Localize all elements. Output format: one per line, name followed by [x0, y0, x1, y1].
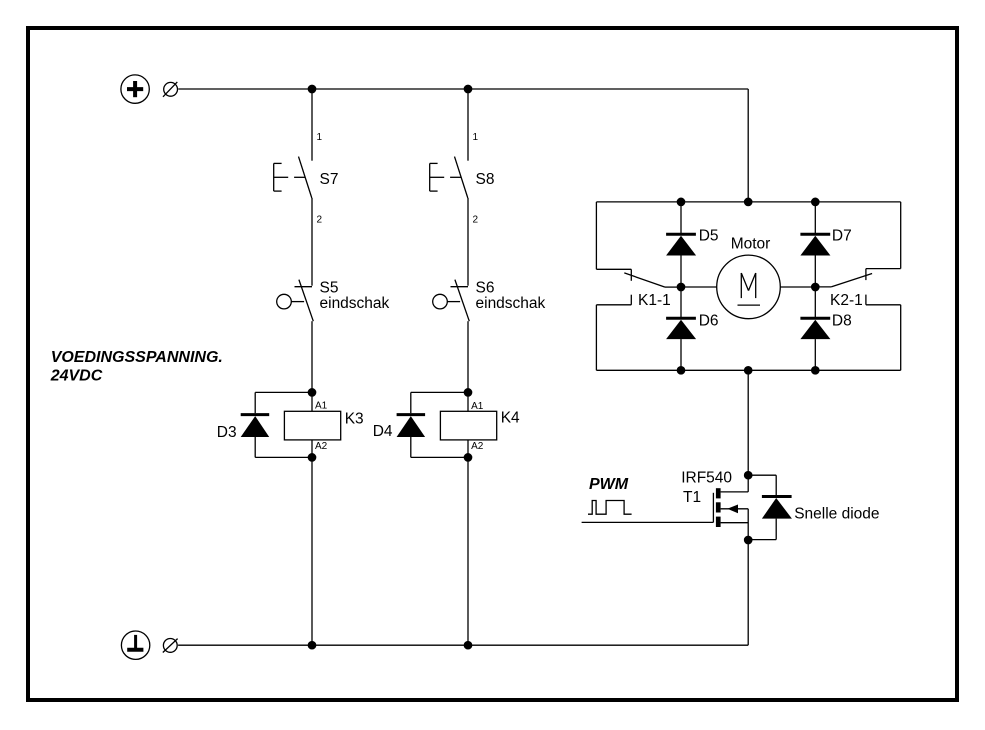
motor M1 [717, 255, 781, 319]
diode D7 [800, 202, 830, 287]
ground connector O [163, 639, 178, 653]
wire bridge top [596, 201, 900, 203]
wire motor right [780, 286, 815, 288]
wire bridge to drain [747, 370, 749, 492]
node top bus left [308, 85, 315, 92]
node bridge top left [677, 198, 684, 205]
wire S6 to K4 node [467, 321, 469, 392]
wire source to bottom bus [747, 540, 749, 645]
svg-text:2: 2 [473, 215, 479, 226]
svg-text:A1: A1 [471, 401, 484, 412]
svg-text:Motor: Motor [731, 236, 771, 253]
svg-text:K3: K3 [345, 411, 364, 428]
contact K1-1 [596, 269, 681, 305]
svg-text:S7: S7 [320, 171, 339, 188]
svg-text:D4: D4 [373, 423, 393, 440]
svg-text:A1: A1 [315, 401, 328, 412]
wire branch2 top [467, 89, 469, 161]
node bridge bottom mid [745, 367, 752, 374]
svg-text:K1-1: K1-1 [638, 292, 671, 309]
svg-text:T1: T1 [683, 489, 701, 506]
switch S5 eindschak [277, 280, 314, 322]
switch S8 [430, 157, 468, 198]
wire right drop to bridge [747, 89, 749, 202]
node bridge top right [812, 198, 819, 205]
svg-text:24VDC: 24VDC [50, 367, 103, 384]
wire bridge left edge lower [595, 305, 597, 371]
svg-text:A2: A2 [315, 441, 328, 452]
svg-text:K4: K4 [501, 410, 520, 427]
svg-text:VOEDINGSSPANNING.: VOEDINGSSPANNING. [51, 349, 223, 366]
node bottom bus left [308, 642, 315, 649]
node bridge bottom left [677, 367, 684, 374]
pwm waveform [588, 501, 632, 515]
node bridge mid right [812, 283, 819, 290]
wire S8 to S6 [467, 198, 469, 286]
wire S5 to K3 node [311, 321, 313, 392]
svg-text:IRF540: IRF540 [681, 469, 732, 486]
switch S6 eindschak [433, 280, 470, 322]
svg-text:D7: D7 [832, 228, 852, 245]
plus terminal [121, 75, 149, 103]
contact K2-1 [815, 269, 900, 305]
diode D8 [800, 287, 830, 370]
svg-text:D8: D8 [832, 313, 852, 330]
svg-text:1: 1 [317, 132, 323, 143]
svg-text:1: 1 [473, 132, 479, 143]
wire bridge left edge upper [595, 202, 597, 269]
diode D5 [666, 202, 696, 287]
svg-text:eindschak: eindschak [320, 295, 390, 312]
svg-text:S8: S8 [476, 171, 495, 188]
diode D3 [241, 392, 312, 457]
node bottom bus mid [464, 642, 471, 649]
wire S7 to S5 [311, 198, 313, 286]
relay coil K3 [284, 392, 340, 457]
wire motor left [681, 286, 717, 288]
diode D4 [397, 392, 468, 457]
node K3 top [308, 389, 315, 396]
svg-text:D6: D6 [699, 313, 719, 330]
wire bridge right edge upper [900, 202, 902, 269]
node source [745, 536, 752, 543]
node top bus mid [464, 85, 471, 92]
svg-text:D5: D5 [699, 228, 719, 245]
node K4 bottom [464, 454, 471, 461]
mosfet T1 [582, 488, 749, 540]
diode D6 [666, 287, 696, 370]
svg-text:D3: D3 [217, 424, 237, 441]
svg-text:eindschak: eindschak [476, 295, 546, 312]
wire bottom bus [178, 644, 748, 646]
relay coil K4 [440, 392, 496, 457]
node bridge mid left [677, 283, 684, 290]
svg-text:2: 2 [317, 215, 323, 226]
svg-text:Snelle diode: Snelle diode [794, 506, 879, 523]
svg-text:K2-1: K2-1 [830, 292, 863, 309]
node K3 bottom [308, 454, 315, 461]
wire top bus [178, 88, 748, 90]
node bridge bottom right [812, 367, 819, 374]
switch S7 [274, 157, 312, 198]
plus connector O [163, 82, 178, 97]
wire bridge bottom [596, 369, 900, 371]
svg-text:PWM: PWM [589, 476, 629, 493]
node bridge top mid [745, 198, 752, 205]
node K4 top [464, 389, 471, 396]
wire bridge right edge lower [900, 305, 902, 371]
ground terminal [121, 631, 149, 659]
node drain [745, 472, 752, 479]
wire K3 to bottom bus [311, 457, 313, 645]
diode snelle [748, 475, 792, 539]
svg-text:A2: A2 [471, 441, 484, 452]
wire K4 to bottom bus [467, 457, 469, 645]
wire branch1 top [311, 89, 313, 161]
